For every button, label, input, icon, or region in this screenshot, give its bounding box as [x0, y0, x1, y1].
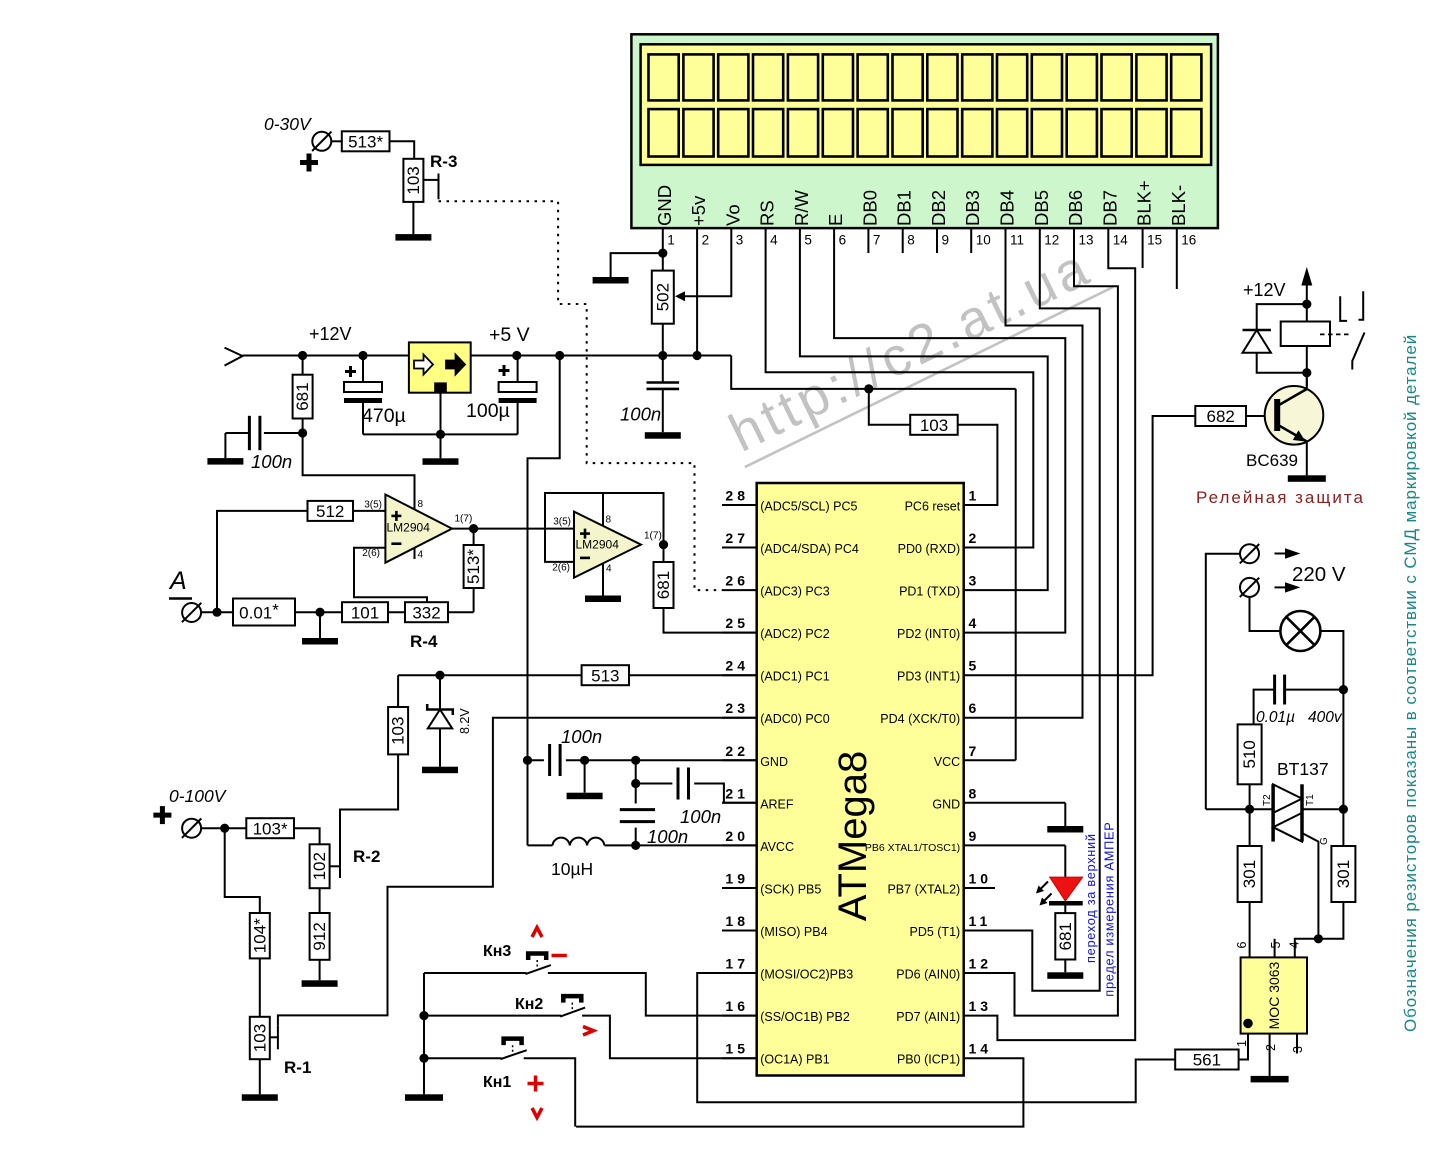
svg-text:2: 2	[1264, 1044, 1278, 1051]
svg-text:MOC 3063: MOC 3063	[1266, 961, 1282, 1029]
svg-text:R-1: R-1	[284, 1058, 311, 1077]
svg-text:(SCK) PB5: (SCK) PB5	[760, 883, 821, 897]
svg-text:5: 5	[1269, 942, 1283, 949]
svg-text:28: 28	[725, 488, 749, 504]
svg-text:Кн1: Кн1	[483, 1074, 511, 1091]
svg-text:Vo: Vo	[722, 204, 743, 226]
svg-text:100n: 100n	[561, 726, 602, 747]
svg-text:ATMega8: ATMega8	[831, 751, 875, 921]
svg-text:(ADC4/SDA) PC4: (ADC4/SDA) PC4	[760, 542, 859, 556]
svg-text:8: 8	[418, 499, 424, 510]
svg-text:301: 301	[1240, 860, 1259, 888]
svg-text:17: 17	[725, 956, 749, 972]
svg-text:220 V: 220 V	[1292, 563, 1346, 586]
svg-text:GND: GND	[760, 755, 788, 769]
svg-text:3(5): 3(5)	[553, 517, 571, 528]
svg-text:4: 4	[969, 615, 981, 631]
svg-text:0-100V: 0-100V	[169, 786, 228, 806]
svg-text:13: 13	[1079, 233, 1094, 248]
svg-text:PD5 (T1): PD5 (T1)	[909, 925, 960, 939]
svg-text:513: 513	[591, 666, 619, 685]
svg-text:DB2: DB2	[928, 190, 949, 226]
svg-text:103: 103	[250, 1024, 269, 1052]
svg-text:1(7): 1(7)	[644, 531, 662, 542]
svg-text:Обозначения резисторов показан: Обозначения резисторов показаны в соотве…	[1401, 334, 1420, 1032]
svg-text:LM2904: LM2904	[387, 521, 431, 535]
svg-text:PD0 (RXD): PD0 (RXD)	[898, 542, 961, 556]
svg-text:15: 15	[1147, 233, 1162, 248]
svg-text:681: 681	[293, 382, 312, 410]
svg-text:13: 13	[969, 998, 993, 1014]
svg-text:3: 3	[736, 233, 744, 248]
svg-text:(OC1A) PB1: (OC1A) PB1	[760, 1053, 830, 1067]
svg-text:19: 19	[725, 871, 749, 887]
svg-text:PD4 (XCK/T0): PD4 (XCK/T0)	[880, 712, 960, 726]
svg-text:1: 1	[1235, 1040, 1249, 1047]
svg-text:3(5): 3(5)	[364, 500, 382, 511]
svg-text:5: 5	[804, 233, 812, 248]
svg-text:DB1: DB1	[894, 190, 915, 226]
svg-text:(ADC3) PC3: (ADC3) PC3	[760, 585, 830, 599]
svg-text:20: 20	[725, 828, 749, 844]
svg-text:8: 8	[606, 515, 612, 526]
svg-text:2(6): 2(6)	[362, 548, 380, 559]
svg-text:PC6 reset: PC6 reset	[905, 500, 961, 514]
svg-text:2: 2	[969, 530, 981, 546]
svg-text:512: 512	[316, 502, 344, 521]
svg-text:15: 15	[725, 1041, 749, 1057]
svg-text:16: 16	[725, 998, 749, 1014]
svg-text:22: 22	[725, 743, 749, 759]
svg-text:T1: T1	[1305, 794, 1316, 806]
svg-text:Кн2: Кн2	[515, 996, 543, 1013]
svg-text:PD7 (AIN1): PD7 (AIN1)	[896, 1010, 960, 1024]
svg-text:912: 912	[310, 922, 329, 950]
svg-text:AREF: AREF	[760, 797, 794, 811]
svg-text:+12V: +12V	[1243, 280, 1286, 300]
svg-text:R-4: R-4	[410, 632, 438, 651]
svg-text:(SS/OC1B) PB2: (SS/OC1B) PB2	[760, 1010, 850, 1024]
svg-text:+5 V: +5 V	[489, 324, 530, 346]
svg-text:PD3 (INT1): PD3 (INT1)	[897, 670, 960, 684]
svg-text:BT137: BT137	[1277, 759, 1329, 779]
svg-text:2(6): 2(6)	[552, 563, 570, 574]
svg-text:9: 9	[942, 233, 950, 248]
svg-text:10: 10	[976, 233, 991, 248]
svg-text:DB5: DB5	[1031, 190, 1052, 226]
svg-text:12: 12	[969, 956, 993, 972]
svg-text:100n: 100n	[620, 404, 661, 425]
svg-text:RS: RS	[757, 200, 778, 226]
svg-text:R-3: R-3	[430, 152, 457, 171]
svg-text:3: 3	[969, 573, 981, 589]
svg-text:1: 1	[969, 488, 981, 504]
svg-text:Релейная защита: Релейная защита	[1196, 488, 1365, 507]
svg-text:11: 11	[969, 913, 992, 929]
svg-text:2: 2	[702, 233, 710, 248]
svg-text:682: 682	[1207, 407, 1235, 426]
svg-text:1(7): 1(7)	[455, 514, 473, 525]
svg-text:LM2904: LM2904	[576, 538, 620, 552]
svg-text:8.2V: 8.2V	[458, 708, 472, 734]
svg-text:PD2 (INT0): PD2 (INT0)	[897, 627, 960, 641]
svg-text:101: 101	[351, 603, 379, 622]
svg-text:DB3: DB3	[962, 190, 983, 226]
svg-text:100n: 100n	[251, 451, 292, 472]
svg-text:104*: 104*	[250, 918, 269, 953]
svg-text:PB6 XTAL1/TOSC1): PB6 XTAL1/TOSC1)	[865, 842, 960, 854]
svg-text:PB0 (ICP1): PB0 (ICP1)	[897, 1053, 960, 1067]
svg-text:DB4: DB4	[997, 190, 1018, 226]
svg-text:301: 301	[1334, 860, 1353, 888]
svg-text:(MISO) PB4: (MISO) PB4	[760, 925, 827, 939]
svg-text:510: 510	[1240, 740, 1259, 768]
svg-text:332: 332	[412, 603, 440, 622]
svg-text:7: 7	[873, 233, 881, 248]
svg-text:+5v: +5v	[688, 195, 709, 226]
svg-text:G: G	[1319, 837, 1330, 845]
svg-text:4: 4	[418, 550, 424, 561]
svg-text:21: 21	[725, 785, 749, 801]
svg-text:DB6: DB6	[1065, 190, 1086, 226]
svg-text:5: 5	[969, 658, 981, 674]
svg-text:DB0: DB0	[859, 190, 880, 226]
svg-text:VCC: VCC	[934, 755, 960, 769]
svg-text:4: 4	[1288, 942, 1302, 949]
svg-text:A: A	[168, 567, 187, 595]
svg-text:Кн3: Кн3	[483, 943, 511, 960]
svg-text:R/W: R/W	[791, 190, 812, 227]
svg-text:26: 26	[725, 573, 749, 589]
svg-text:E: E	[825, 214, 846, 226]
svg-text:681: 681	[654, 571, 673, 599]
svg-text:BLK-: BLK-	[1168, 185, 1189, 226]
svg-text:681: 681	[1056, 922, 1075, 950]
svg-text:103: 103	[920, 416, 948, 435]
svg-text:18: 18	[725, 913, 749, 929]
svg-text:8: 8	[907, 233, 915, 248]
svg-text:PB7 (XTAL2): PB7 (XTAL2)	[887, 883, 960, 897]
svg-text:400v: 400v	[1308, 709, 1343, 726]
svg-text:100µ: 100µ	[466, 400, 510, 422]
svg-text:BLK+: BLK+	[1134, 180, 1155, 226]
svg-text:0-30V: 0-30V	[264, 114, 313, 134]
svg-text:DB7: DB7	[1099, 190, 1120, 226]
svg-text:8: 8	[969, 785, 981, 801]
svg-text:10: 10	[969, 871, 993, 887]
svg-text:24: 24	[725, 658, 749, 674]
svg-text:(ADC2) PC2: (ADC2) PC2	[760, 627, 830, 641]
svg-text:(MOSI/OC2)PB3: (MOSI/OC2)PB3	[760, 968, 853, 982]
svg-text:100n: 100n	[680, 806, 721, 827]
svg-text:(ADC5/SCL) PC5: (ADC5/SCL) PC5	[760, 500, 857, 514]
svg-text:4: 4	[606, 564, 612, 575]
svg-text:16: 16	[1181, 233, 1196, 248]
svg-text:502: 502	[653, 283, 672, 311]
svg-text:+12V: +12V	[309, 324, 352, 344]
svg-text:25: 25	[725, 615, 749, 631]
svg-text:4: 4	[770, 233, 778, 248]
svg-text:GND: GND	[654, 185, 675, 226]
svg-text:100n: 100n	[647, 826, 688, 847]
svg-text:513*: 513*	[464, 549, 483, 584]
svg-text:GND: GND	[932, 797, 960, 811]
svg-text:14: 14	[1113, 233, 1129, 248]
svg-text:6: 6	[839, 233, 847, 248]
svg-text:23: 23	[725, 700, 749, 716]
svg-text:561: 561	[1193, 1051, 1221, 1070]
svg-text:103: 103	[404, 166, 423, 194]
svg-text:14: 14	[969, 1041, 993, 1057]
svg-text:103*: 103*	[253, 819, 288, 838]
svg-text:(ADC1) PC1: (ADC1) PC1	[760, 670, 830, 684]
svg-text:PD1 (TXD): PD1 (TXD)	[899, 585, 960, 599]
svg-text:переход за верхний: переход за верхний	[1083, 833, 1098, 963]
svg-text:(ADC0) PC0: (ADC0) PC0	[760, 712, 830, 726]
svg-text:R-2: R-2	[353, 847, 380, 866]
svg-text:470µ: 470µ	[362, 405, 406, 427]
svg-text:27: 27	[725, 530, 749, 546]
svg-text:9: 9	[969, 828, 981, 844]
svg-text:7: 7	[969, 743, 981, 759]
svg-text:11: 11	[1010, 233, 1024, 248]
svg-text:AVCC: AVCC	[760, 840, 794, 854]
svg-text:103: 103	[389, 717, 408, 745]
svg-text:102: 102	[310, 852, 329, 880]
svg-text:1: 1	[667, 233, 675, 248]
svg-text:10µH: 10µH	[551, 859, 593, 879]
svg-text:6: 6	[969, 700, 981, 716]
svg-text:6: 6	[1235, 942, 1249, 949]
svg-text:BC639: BC639	[1246, 451, 1298, 470]
svg-text:12: 12	[1044, 233, 1059, 248]
svg-text:PD6 (AIN0): PD6 (AIN0)	[896, 968, 960, 982]
svg-text:предел измерения АМПЕР: предел измерения АМПЕР	[1102, 821, 1117, 996]
svg-text:513*: 513*	[348, 132, 383, 151]
svg-text:0.01*: 0.01*	[239, 601, 279, 623]
